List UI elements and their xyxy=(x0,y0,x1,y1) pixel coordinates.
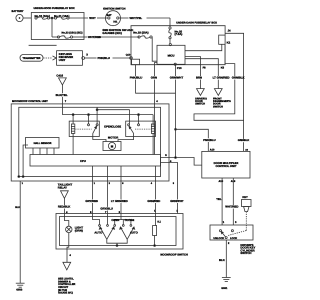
wire GRN/WHT xyxy=(169,65,183,157)
wire branch to fuse No.23 xyxy=(51,18,53,37)
dashed rf link xyxy=(43,57,52,59)
wire GRN xyxy=(150,63,158,155)
note lights dimmer xyxy=(58,278,76,295)
svg-text:IGNITION SWITCH: IGNITION SWITCH xyxy=(103,7,126,10)
MICU bottom pin xyxy=(174,63,182,70)
wire battery to fuse box xyxy=(23,17,31,19)
passenger door switch connector xyxy=(214,89,222,96)
wire LT GRN/RED to passenger door switch xyxy=(185,59,229,89)
svg-text:CLOSE: CLOSE xyxy=(125,218,135,222)
under-dash fuse/relay box xyxy=(131,21,225,64)
power connector xyxy=(56,73,66,85)
moonroof control unit xyxy=(11,100,169,181)
cpu xyxy=(30,155,161,167)
wire GRN/WHT to switch xyxy=(161,160,184,214)
svg-text:PNK/BLU: PNK/BLU xyxy=(130,76,142,80)
keyless receiver unit xyxy=(57,51,83,66)
svg-text:WHT/RED: WHT/RED xyxy=(225,205,238,209)
ground G503 xyxy=(16,283,25,291)
node junction xyxy=(51,17,53,19)
labels open close xyxy=(104,124,121,128)
wire xyxy=(50,17,55,19)
branch to door multiplex A10 xyxy=(175,128,216,151)
key xyxy=(242,196,252,224)
wire WHT/RED xyxy=(225,178,238,225)
svg-text:K2: K2 xyxy=(227,41,231,45)
svg-text:AUTO: AUTO xyxy=(94,231,103,235)
fuse No.18 (20A) xyxy=(133,31,152,39)
lamp dimmer output xyxy=(67,246,69,263)
svg-text:AUTO: AUTO xyxy=(130,231,139,235)
svg-text:UNDER-DASH FUSE/RELAY BOX: UNDER-DASH FUSE/RELAY BOX xyxy=(176,21,217,24)
svg-text:No.18 (20A): No.18 (20A) xyxy=(133,31,148,35)
battery B+ xyxy=(12,10,24,22)
svg-text:(7.5A): (7.5A) xyxy=(175,32,183,36)
svg-text:HALL SENSOR: HALL SENSOR xyxy=(34,142,52,145)
contact drop R2 xyxy=(138,114,140,124)
wire B GRN/BLK from J4 xyxy=(225,33,244,151)
svg-text:MOTOR: MOTOR xyxy=(108,136,118,140)
moonroof open relay xyxy=(69,121,99,136)
illumination lamp xyxy=(64,214,83,246)
svg-text:+: + xyxy=(19,16,21,20)
connector block xyxy=(132,59,140,64)
svg-text:BRN: BRN xyxy=(196,76,202,80)
svg-text:A10: A10 xyxy=(219,180,224,183)
keyless input pin xyxy=(126,54,133,60)
wire BRN to driver door switch xyxy=(185,57,206,89)
ground wire BLK xyxy=(15,181,23,283)
svg-text:GRY/RED: GRY/RED xyxy=(85,199,98,203)
fuse No.23 (15A) xyxy=(52,32,83,39)
svg-text:GRN: GRN xyxy=(151,76,157,80)
svg-text:P10: P10 xyxy=(177,67,182,70)
wire PNK/BLU xyxy=(85,56,131,60)
fuse No.21 (15A) xyxy=(54,14,69,19)
wire E xyxy=(194,44,244,120)
wire coil2 to cpu xyxy=(152,133,154,154)
svg-text:GAUGES (S/C): GAUGES (S/C) xyxy=(102,31,121,35)
wire relay1 to motor xyxy=(93,133,106,141)
svg-text:BATTERY: BATTERY xyxy=(12,10,24,13)
svg-text:BLK/YEL: BLK/YEL xyxy=(56,93,68,97)
svg-text:BAT: BAT xyxy=(107,14,112,17)
connector line C101 xyxy=(29,44,57,46)
coil drop 2 xyxy=(152,115,154,126)
svg-text:LT GRN/RED: LT GRN/RED xyxy=(213,76,230,80)
taillight relay connector xyxy=(58,183,73,199)
wire W1 xyxy=(96,107,129,123)
coil drop 1 xyxy=(72,115,74,124)
wire cpu to door multiplex xyxy=(161,154,202,165)
receive arrow xyxy=(53,56,57,60)
svg-text:K5: K5 xyxy=(221,67,225,70)
svg-text:CPU: CPU xyxy=(80,159,86,163)
dimmer connector xyxy=(63,254,72,270)
svg-text:WHT/RED: WHT/RED xyxy=(88,35,101,39)
svg-text:SWITCH: SWITCH xyxy=(195,103,205,106)
svg-text:BLK: BLK xyxy=(15,206,20,209)
wire fuse18 to MICU xyxy=(152,37,157,61)
hall sensor ground wire xyxy=(18,145,28,177)
note see ignition xyxy=(102,28,133,35)
wire BLK/YEL xyxy=(55,85,68,115)
MICU pin xyxy=(169,44,171,46)
moonroof close relay xyxy=(126,121,156,136)
svg-text:MOONROOF CONTROL UNIT: MOONROOF CONTROL UNIT xyxy=(12,100,48,103)
wire WHT/RED xyxy=(73,35,139,39)
svg-text:OPEN: OPEN xyxy=(111,218,119,222)
svg-text:C416: C416 xyxy=(56,73,63,77)
svg-text:G501: G501 xyxy=(221,287,228,290)
contact circles xyxy=(99,225,132,227)
ignition switch xyxy=(103,7,126,25)
pin J4 xyxy=(228,29,232,33)
transmitter xyxy=(20,55,43,62)
hall sensor xyxy=(26,138,60,149)
svg-text:MOONROOF SWITCH: MOONROOF SWITCH xyxy=(160,254,188,257)
resistor xyxy=(153,220,162,246)
pin 3 xyxy=(82,53,89,60)
svg-text:CLOSE: CLOSE xyxy=(112,124,122,128)
svg-text:LOCK: LOCK xyxy=(230,237,237,240)
svg-text:RELAY: RELAY xyxy=(58,185,67,189)
node xyxy=(72,114,74,116)
svg-text:(GRN): (GRN) xyxy=(75,228,83,232)
wire WHT/YEL xyxy=(119,16,170,27)
svg-text:MICU: MICU xyxy=(168,54,175,57)
moonroof switch xyxy=(56,214,188,257)
switch labels xyxy=(94,218,138,235)
svg-text:GRN/WHT: GRN/WHT xyxy=(170,199,184,203)
pin A2 label xyxy=(237,139,249,152)
svg-text:J4: J4 xyxy=(228,29,232,33)
svg-text:UNLOCK: UNLOCK xyxy=(213,237,224,240)
svg-text:G503: G503 xyxy=(16,289,23,292)
contact drop L1 xyxy=(88,114,90,124)
svg-text:GRY/BLU: GRY/BLU xyxy=(100,207,112,211)
under-hood fuse/relay box xyxy=(31,7,84,39)
relay coil box K2 xyxy=(219,35,231,45)
key cylinder text xyxy=(240,243,255,255)
switch distribution xyxy=(93,217,131,225)
label GRN/BLK xyxy=(231,76,242,80)
svg-text:GRN/BLK: GRN/BLK xyxy=(238,139,250,142)
svg-text:No.23 (15A) (S/C): No.23 (15A) (S/C) xyxy=(62,32,83,35)
wire to ground xyxy=(219,240,230,278)
svg-text:IG1: IG1 xyxy=(113,21,118,24)
svg-text:UNDER-HOOD FUSE/RELAY BOX: UNDER-HOOD FUSE/RELAY BOX xyxy=(34,7,75,10)
wire coil1 to cpu xyxy=(72,133,74,154)
wire fuse to MICU xyxy=(169,39,171,44)
svg-text:YEL: YEL xyxy=(216,197,222,201)
svg-text:Q13: Q13 xyxy=(126,54,131,57)
wire W2 xyxy=(62,114,153,116)
wire GRN/RED xyxy=(147,166,160,226)
svg-text:LT GRN/RED: LT GRN/RED xyxy=(111,199,128,203)
MICU xyxy=(157,45,185,64)
wire LT GRN/RED 2 xyxy=(111,166,128,217)
ground G501 xyxy=(221,278,230,290)
switch arms xyxy=(99,227,134,246)
fuse No.20 (7.5A) xyxy=(169,27,183,39)
svg-text:KEY: KEY xyxy=(242,196,248,199)
door multiplex control unit xyxy=(202,151,250,178)
wire YEL xyxy=(216,178,225,225)
svg-text:PNK/BLU: PNK/BLU xyxy=(203,138,215,142)
wire GRY/BLU xyxy=(100,166,113,217)
fuse No.15 (10A) xyxy=(35,14,50,19)
svg-text:GRN/RED: GRN/RED xyxy=(147,199,160,203)
svg-text:GRN/WHT: GRN/WHT xyxy=(170,76,184,80)
svg-text:RED/BLK: RED/BLK xyxy=(58,205,70,209)
hall sensor pins xyxy=(33,148,54,155)
svg-text:8.1: 8.1 xyxy=(157,220,161,223)
svg-text:SWITCH: SWITCH xyxy=(240,251,251,255)
svg-text:SWITCH: SWITCH xyxy=(213,105,223,108)
svg-text:PNK/BLU: PNK/BLU xyxy=(98,56,110,60)
wire MICU to relay xyxy=(185,44,222,50)
svg-text:UNIT: UNIT xyxy=(59,58,66,62)
driver door key cylinder switch xyxy=(210,225,253,240)
wire RED/BLK xyxy=(58,198,71,213)
svg-text:GRN/BLK: GRN/BLK xyxy=(232,76,245,80)
driver door switch connector xyxy=(197,89,205,96)
svg-text:GAUGE S/C): GAUGE S/C) xyxy=(58,292,73,295)
wire GRY/RED xyxy=(85,166,98,217)
wire WHT to ignition switch xyxy=(69,16,108,20)
svg-text:A10: A10 xyxy=(210,148,215,151)
wire PNK/BLU vertical xyxy=(129,65,175,94)
svg-text:TRANSMITTER: TRANSMITTER xyxy=(23,57,41,60)
wire relay2 to motor xyxy=(118,133,134,141)
svg-text:CONTROL UNIT: CONTROL UNIT xyxy=(215,164,236,168)
svg-text:WHT: WHT xyxy=(89,16,96,20)
moonroof motor xyxy=(103,136,121,151)
svg-text:WHT/YEL: WHT/YEL xyxy=(130,16,143,20)
svg-text:BLK: BLK xyxy=(219,258,225,262)
